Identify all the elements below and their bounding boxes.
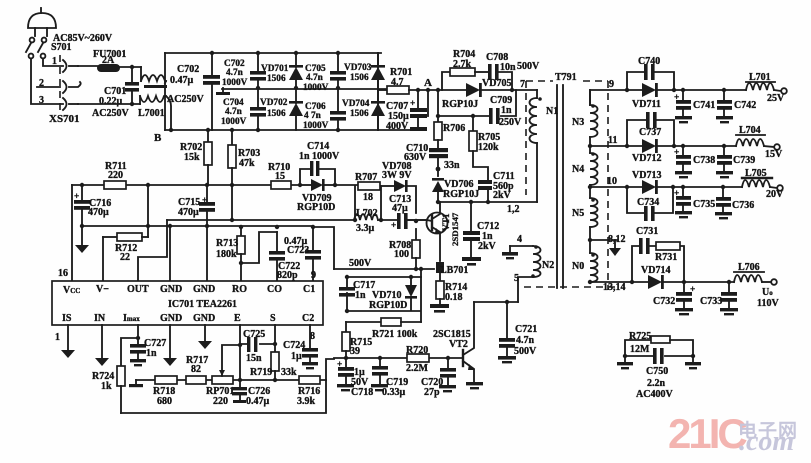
secondary winding N5 [588,185,598,253]
capacitor C704 4.7n [250,88,266,132]
wire pin1 to fuse [78,65,97,67]
svg-text:C736: C736 [732,200,754,211]
svg-text:400V: 400V [386,121,409,132]
feedback winding N2 [502,245,541,302]
svg-text:1000V: 1000V [303,121,329,131]
resistor R717 [186,376,206,384]
wire Vcc riser [71,185,73,281]
svg-text:GND: GND [160,284,182,295]
switch S701 [26,38,46,59]
S pin wire [274,325,276,352]
svg-text:100: 100 [394,249,409,260]
25V rail wire [590,90,746,105]
capacitor C706 [330,88,346,132]
resistor R701 [378,86,466,94]
svg-text:RGP10D: RGP10D [297,202,335,213]
wire pin3 to C701 [78,103,140,105]
svg-text:2kV: 2kV [493,190,512,201]
capacitor C725 [240,337,275,352]
transformer core [557,85,563,288]
resistor R721 [346,318,421,326]
svg-text:VD713: VD713 [632,170,661,181]
capacitor C707 [410,88,427,131]
capacitor C718 [337,356,354,392]
svg-text:+: + [674,93,679,103]
svg-text:AC250V: AC250V [92,108,129,119]
svg-text:1506: 1506 [267,109,286,119]
capacitor C701 [125,65,139,106]
winding N0 [588,238,598,284]
svg-text:1506: 1506 [350,73,369,83]
resistor R713 [237,227,245,281]
IC701 box [52,281,323,325]
svg-text:0.47μ: 0.47μ [170,75,194,86]
diode VD710 [405,285,417,299]
chain ground left [129,380,143,387]
ground at bridge mid [216,88,230,95]
svg-text:0.22μ: 0.22μ [99,96,123,107]
svg-text:250V: 250V [499,117,522,128]
transformer T791 dashed outline [524,81,620,290]
svg-text:C721: C721 [515,324,537,335]
svg-text:9: 9 [311,270,316,281]
svg-text:VD702: VD702 [260,98,288,108]
inductor L706 [734,275,777,285]
svg-text:Uo: Uo [762,287,773,298]
svg-text:T791: T791 [555,72,577,83]
svg-text:25V: 25V [767,93,785,104]
svg-text:R731: R731 [655,252,677,263]
snubber loop C737 [625,120,676,148]
svg-text:AC250V: AC250V [167,94,204,105]
secondary winding N4 [588,144,598,198]
resistor R716 [299,359,334,384]
inductor L701 [746,83,787,94]
svg-text:15n: 15n [246,353,262,364]
svg-text:1,2: 1,2 [507,204,520,215]
svg-text:N3: N3 [572,117,584,128]
diode VD702 [289,88,303,130]
resistor R715 [342,322,350,358]
svg-text:+: + [74,192,79,202]
fuse FU7001 [97,64,141,72]
pin2 stub wire [37,86,60,88]
potentiometer RP701 [212,345,240,384]
primary winding N1 [530,90,542,202]
svg-text:+: + [674,189,679,199]
svg-text:XS701: XS701 [49,113,80,125]
svg-text:1n 1000V: 1n 1000V [299,151,340,162]
zener VD706 [432,169,444,202]
svg-text:VD711: VD711 [632,99,661,110]
svg-text:N5: N5 [572,208,584,219]
svg-text:2kV: 2kV [478,241,497,252]
wire line B1 [167,219,427,221]
diode VD709 [300,179,335,191]
resistor R707 [358,182,380,190]
capacitor C731 [639,238,650,254]
wire L7001 top to filter box [165,81,166,83]
svg-text:47μ: 47μ [392,203,408,214]
svg-text:12M: 12M [630,344,650,355]
GND1 bottom ground [163,325,177,366]
bridge mid wire [222,88,388,90]
bottom box wire [121,380,326,413]
svg-text:RGP10J: RGP10J [442,99,478,110]
wire GND1 riser [169,226,171,281]
diode VD701 [289,51,303,90]
capacitor C724 [302,348,318,369]
svg-text:LB701: LB701 [440,265,468,276]
svg-text:13,14: 13,14 [603,282,626,293]
capacitor C739 [716,144,733,179]
wire C709 line [438,90,516,116]
snubber loop C740 [625,72,676,92]
diode VD712 [642,139,658,153]
capacitor C712 [462,202,481,266]
svg-text:+: + [410,99,415,109]
svg-text:1000V: 1000V [222,78,248,88]
svg-text:2.7k: 2.7k [453,59,472,70]
svg-text:C737: C737 [639,127,661,138]
svg-text:VD704: VD704 [342,99,370,109]
filter box left edge wire [164,53,166,130]
capacitor C740 [644,64,655,80]
svg-text:22: 22 [120,252,130,263]
svg-text:V−: V− [96,284,109,295]
svg-text:C735: C735 [693,199,715,210]
connector XS701 contacts [60,55,81,112]
capacitor C719 [371,356,388,392]
svg-text:N2: N2 [542,260,554,271]
capacitor C708 [488,64,512,90]
IS pin ground [61,325,75,358]
Imax pin wire [121,325,140,366]
wire line B2 [82,225,313,227]
svg-text:7: 7 [520,79,525,90]
C2 pin wire [309,325,311,348]
svg-text:500V: 500V [349,258,372,269]
junction dots line B2 [146,224,150,228]
capacitor C716 [74,183,90,245]
capacitor C715 [199,183,215,281]
svg-text:C742: C742 [734,100,756,111]
inductor L702 [354,214,378,220]
svg-text:IS: IS [62,313,72,324]
capacitor C717 [339,287,355,297]
svg-text:C734: C734 [637,197,659,208]
resistor R702 [204,128,212,185]
resistor R708 [412,229,420,271]
chassis arrow at 8,12 [590,240,621,256]
svg-text:20V: 20V [766,189,784,200]
svg-text:1n: 1n [355,290,366,301]
wire switch to pin3 [31,59,63,104]
svg-text:VCC: VCC [63,285,80,296]
capacitor C734 [644,206,655,221]
resistor R731 [656,242,680,250]
wire C713 to VT1 base [408,219,427,221]
zener VD708 [394,180,416,213]
svg-text:C718: C718 [351,387,373,398]
svg-text:4.7: 4.7 [391,77,404,88]
svg-text:1: 1 [52,56,57,67]
resistor R703 [228,128,236,220]
svg-text:IN: IN [94,313,106,324]
svg-text:630V: 630V [404,152,427,163]
svg-text:82: 82 [191,364,201,375]
svg-text:VD703: VD703 [344,63,372,73]
svg-text:4.7n: 4.7n [306,73,324,83]
resistor R725 [625,336,693,356]
svg-text:15V: 15V [765,149,783,160]
svg-text:27p: 27p [424,387,440,398]
resistor R718 [155,376,177,384]
wire switch to pin1 [43,59,63,66]
capacitor C709 [489,108,500,124]
svg-text:+: + [690,285,695,295]
svg-text:33k: 33k [281,367,297,378]
svg-text:VT2: VT2 [449,339,468,350]
diode VD714 [648,275,664,289]
svg-text:OUT: OUT [127,284,149,295]
capacitor C713 [391,213,418,231]
svg-text:N0: N0 [572,261,584,272]
15V rail wire [590,145,736,147]
top bus wire [165,52,381,54]
diode VD704 [371,89,385,130]
svg-text:180k: 180k [216,249,237,260]
svg-text:GND: GND [160,313,182,324]
svg-text:S701: S701 [51,42,72,53]
wire R707 parallel verticals [355,186,381,220]
svg-text:RO: RO [232,284,247,295]
ferrite bead LB701 [436,262,444,273]
inductor L704 [736,139,780,150]
capacitor C705 [330,51,346,90]
svg-text:L7001: L7001 [138,108,165,119]
svg-text:R721 100k: R721 100k [372,329,418,340]
secondary winding N3 [590,90,598,153]
svg-text:C738: C738 [693,155,715,166]
svg-text:470μ: 470μ [178,207,199,218]
chain wire [136,379,326,381]
svg-text:IC701 TEA2261: IC701 TEA2261 [168,299,237,310]
wire bus A to VD708 [381,185,394,187]
capacitor C720 [439,356,456,393]
svg-text:16: 16 [58,268,68,279]
20V rail wire [590,186,742,188]
svg-text:120k: 120k [478,142,499,153]
diode VD711 [642,83,658,97]
svg-text:470μ: 470μ [88,207,109,218]
svg-text:N1: N1 [546,106,558,117]
svg-text:2.2M: 2.2M [406,363,429,374]
svg-text:1506: 1506 [350,109,369,119]
bottom bus wire [165,129,418,131]
svg-text:R725: R725 [629,331,651,342]
resistor R719 [271,352,279,382]
junction dot bus A R703 [230,183,234,187]
ground left of C750 [617,356,633,369]
snubber C731 R731 branch [630,246,686,284]
svg-text:E: E [234,313,241,324]
svg-text:C731: C731 [636,226,658,237]
svg-text:3.9k: 3.9k [297,396,316,407]
svg-text:1: 1 [55,332,60,343]
resistor R710 [271,181,291,189]
svg-text:3W 9V: 3W 9V [382,170,412,181]
diode VD713 [642,180,658,194]
svg-text:B: B [154,132,162,144]
svg-text:C702: C702 [177,64,199,75]
svg-text:1μ: 1μ [291,351,302,362]
capacitor C742 [716,88,733,124]
svg-text:4.7n: 4.7n [516,335,535,346]
svg-text:15: 15 [275,171,285,182]
resistor R704 [442,68,488,90]
bus A wire [72,184,358,186]
capacitor C750 [623,348,695,364]
svg-text:GND: GND [193,284,215,295]
snubber C714 box [298,169,337,187]
svg-text:R720: R720 [406,345,428,356]
svg-text:500V: 500V [514,346,537,357]
svg-text:C1: C1 [303,284,315,295]
svg-text:3.3μ: 3.3μ [356,223,375,234]
svg-text:CO: CO [267,284,282,295]
svg-text:2A: 2A [102,55,115,66]
svg-text:4 7n: 4 7n [304,111,322,121]
svg-text:Imax: Imax [123,313,140,324]
capacitor C702 4.7n [250,51,266,90]
svg-text:C739: C739 [733,155,755,166]
resistor R714 [430,273,449,313]
capacitor C711 [478,180,492,202]
svg-text:4: 4 [517,234,522,245]
capacitor C721 [498,302,516,363]
svg-text:4.7n: 4.7n [225,107,243,117]
svg-text:1000V: 1000V [221,117,247,127]
svg-text:820p: 820p [277,270,298,281]
svg-text:2.2n: 2.2n [647,378,666,389]
svg-text:C723: C723 [287,245,309,256]
svg-text:C750: C750 [646,366,668,377]
svg-text:11: 11 [608,135,617,146]
capacitor C710 [429,148,448,171]
svg-text:L702: L702 [356,208,378,219]
svg-text:+: + [202,196,207,206]
svg-text:+: + [337,360,342,370]
svg-text:0.47μ: 0.47μ [246,396,270,407]
svg-text:1000V: 1000V [303,83,329,93]
svg-text:C740: C740 [638,56,660,67]
svg-text:220: 220 [213,396,228,407]
snubber C717/VD710 box [345,267,423,322]
common-mode choke L7001 [140,67,167,104]
node vertical below A [437,90,439,113]
svg-text:33n: 33n [444,160,460,171]
capacitor C726 [232,378,247,403]
svg-text:RGP10J: RGP10J [443,189,479,200]
capacitor C723 [305,227,321,281]
wire OUT pin riser [138,220,167,281]
svg-text:4.7n: 4.7n [226,68,244,78]
svg-text:C724: C724 [283,340,305,351]
svg-text:GND: GND [193,313,215,324]
inductor L705 [742,180,783,191]
svg-text:680: 680 [157,396,172,407]
capacitor C727 [130,344,146,366]
diode VD705 [466,83,537,97]
svg-text:110V: 110V [757,298,779,309]
svg-text:R719: R719 [250,367,272,378]
svg-text:39: 39 [350,346,360,357]
svg-text:2SD1547: 2SD1547 [450,212,460,246]
svg-text:18: 18 [363,192,373,203]
svg-text:S: S [270,313,276,324]
capacitor C722 [269,232,285,281]
svg-text:+: + [674,148,679,158]
resistor R705 [469,116,488,181]
resistor R720 [407,354,429,362]
collector line wire [437,201,537,203]
svg-text:C741: C741 [693,100,715,111]
svg-text:A: A [424,77,432,89]
500V line wire [334,268,434,270]
watermark 21IC.com [668,410,745,458]
svg-text:47k: 47k [239,158,255,169]
svg-text:VD701: VD701 [261,64,289,74]
svg-text:VD712: VD712 [632,153,661,164]
capacitor C736 [715,185,732,220]
svg-text:9: 9 [609,79,614,90]
capacitor C741 [674,88,692,124]
110V rail wire [590,281,734,283]
wire R713 to C722 [241,232,277,263]
GND2 bottom ground [198,325,212,349]
svg-text:500V: 500V [517,61,540,72]
wire collector line to C721 [474,301,518,303]
svg-text:R713: R713 [216,238,238,249]
svg-text:0.18: 0.18 [445,292,463,303]
resistor R724 [117,366,125,413]
svg-text:15k: 15k [184,152,200,163]
ground under C716 [75,245,89,253]
diode VD703 [371,53,385,89]
svg-text:RGP10D: RGP10D [369,300,407,311]
capacitor C714 [310,161,319,176]
transistor VT1 [427,202,448,261]
svg-text:VD714: VD714 [641,265,670,276]
svg-text:C733: C733 [700,296,722,307]
snubber loop C734 [625,185,675,213]
svg-text:R707: R707 [355,172,377,183]
svg-text:1k: 1k [101,381,112,392]
svg-text:R706: R706 [443,123,465,134]
capacitor C737 [646,112,657,128]
svg-text:0.33μ: 0.33μ [382,387,406,398]
ground right of C750 [685,356,701,369]
wire lineB2 to 500V line [313,227,334,269]
svg-text:10: 10 [607,176,617,187]
resistor R706 [434,116,442,148]
svg-text:220: 220 [108,170,123,181]
E pin wire [239,325,241,380]
svg-text:+: + [391,221,396,231]
capacitor C702 0.47u [203,51,220,130]
svg-text:N4: N4 [572,164,584,175]
